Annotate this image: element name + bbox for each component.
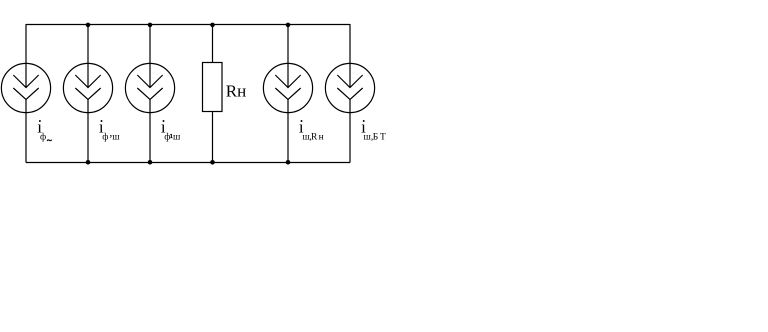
- svg-text:Rн: Rн: [226, 82, 246, 101]
- current source I2 arrow chevron 2: [75, 88, 100, 99]
- current source I1 arrow chevron 1: [13, 75, 38, 88]
- junction node top at branch 5: [286, 23, 291, 28]
- wire: branch 5 lower segment: [287, 99, 289, 162]
- junction node bottom at branch 3: [148, 160, 153, 165]
- current source I5 circle: [325, 63, 374, 112]
- svg-text:Б: Б: [373, 133, 378, 143]
- junction node bottom at branch 5: [286, 160, 291, 165]
- wire: branch 2 upper segment: [87, 24, 89, 88]
- wire: resistor branch upper segment: [212, 24, 214, 63]
- current source I2 arrow chevron 1: [75, 75, 100, 88]
- current source I1 circle: [1, 63, 50, 112]
- svg-text:ш: ш: [173, 133, 181, 143]
- label i_ф¹ш for current source I3: [161, 118, 181, 144]
- current source I5 arrow chevron 2: [337, 88, 362, 99]
- wire: branch 3 lower segment: [149, 99, 151, 162]
- svg-text:ш: ш: [112, 133, 120, 143]
- bottom bus wire: [26, 162, 350, 164]
- current source I4 circle: [263, 63, 312, 112]
- wire: branch 3 upper segment: [149, 24, 151, 88]
- current source I4 arrow chevron 2: [275, 88, 300, 99]
- svg-text:R: R: [311, 133, 318, 143]
- label i_ф~ for current source I1: [37, 118, 52, 143]
- current source I4 arrow chevron 1: [275, 75, 300, 88]
- junction node bottom at branch 2: [86, 160, 91, 165]
- svg-text:ф: ф: [102, 132, 108, 143]
- current source I2 circle: [63, 63, 112, 112]
- wire: branch 2 lower segment: [87, 99, 89, 162]
- label i_ш,БТ for current source I5: [361, 118, 386, 143]
- junction node top at resistor branch: [210, 23, 215, 28]
- wire: branch 5 upper segment: [287, 24, 289, 88]
- svg-text:ф: ф: [40, 132, 46, 143]
- wire: branch 6 upper segment: [349, 24, 351, 88]
- current source I3 circle: [125, 63, 174, 112]
- current source I1 arrow chevron 2: [13, 88, 38, 99]
- wire: branch 1 lower segment: [25, 99, 27, 162]
- label i_ф’ш for current source I2: [99, 118, 120, 146]
- svg-text:н: н: [319, 133, 324, 143]
- current source I3 arrow chevron 2: [137, 88, 162, 99]
- current source I5 arrow chevron 1: [337, 75, 362, 88]
- wire: resistor branch lower segment: [212, 112, 214, 163]
- label i_ш,Rн for current source I4: [299, 118, 324, 143]
- wire: branch 6 lower segment: [349, 99, 351, 162]
- junction node top at branch 3: [148, 23, 153, 28]
- top bus wire: [26, 24, 350, 26]
- current source I3 arrow chevron 1: [137, 75, 162, 88]
- junction node bottom at resistor branch: [210, 160, 215, 165]
- junction node top at branch 2: [86, 23, 91, 28]
- wire: branch 1 upper segment: [25, 24, 27, 88]
- svg-text:Т: Т: [380, 133, 386, 143]
- resistor Rн body: [203, 63, 223, 112]
